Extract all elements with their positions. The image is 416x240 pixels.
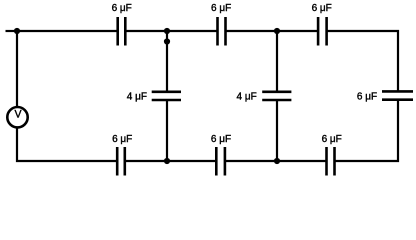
- svg-text:6 μF: 6 μF: [312, 3, 332, 14]
- junction dot node A top: [164, 28, 170, 34]
- voltage source V: [7, 107, 27, 127]
- wire left branch upper: [16, 31, 18, 107]
- capacitor C4 plates (middle, 4 uF): [152, 91, 181, 94]
- wire top rail segment 3: [226, 30, 319, 32]
- junction dot node B bottom: [274, 158, 280, 164]
- svg-text:4 μF: 4 μF: [127, 92, 147, 103]
- wire top rail segment 2: [126, 30, 218, 32]
- capacitor C9 plates (bottom row, 6 uF): [325, 147, 328, 176]
- wire top rail segment 4 + right branch upper: [327, 31, 399, 92]
- wire top rail segment 1: [17, 30, 117, 32]
- capacitor C7 plates (bottom row, 6 uF): [116, 147, 119, 176]
- svg-text:4 μF: 4 μF: [236, 92, 256, 103]
- junction dot top-left node: [14, 28, 20, 34]
- wire middle branch 1 lower: [166, 100, 168, 161]
- svg-text:6 μF: 6 μF: [112, 134, 132, 145]
- wire middle branch 2 upper: [276, 31, 278, 92]
- svg-text:V: V: [14, 109, 22, 121]
- capacitor C2 plates (top row, 6 uF): [216, 17, 219, 46]
- wire top-left stub: [6, 30, 18, 32]
- junction dot node A second: [164, 38, 170, 44]
- wire middle branch 2 lower: [276, 100, 278, 161]
- junction dot node A bottom: [164, 158, 170, 164]
- capacitor C8 plates (bottom row, 6 uF): [215, 147, 218, 176]
- wire bottom rail segment 1 + left branch lower corner: [17, 128, 117, 161]
- svg-text:6 μF: 6 μF: [112, 3, 132, 14]
- svg-text:6 μF: 6 μF: [357, 92, 377, 103]
- wire middle branch 1 upper: [166, 31, 168, 92]
- junction dot node B top: [274, 28, 280, 34]
- svg-text:6 μF: 6 μF: [211, 134, 231, 145]
- svg-text:6 μF: 6 μF: [322, 134, 342, 145]
- capacitor C6 plates (right, 6 uF): [382, 90, 413, 93]
- wire bottom rail segment 3: [225, 160, 327, 162]
- wire bottom rail segment 2: [125, 160, 217, 162]
- svg-text:6 μF: 6 μF: [211, 3, 231, 14]
- wire right branch lower + bottom rail segment 4: [335, 100, 399, 161]
- capacitor C1 plates (top row, 6 uF): [116, 17, 119, 46]
- capacitor C5 plates (middle, 4 uF): [262, 91, 291, 94]
- capacitor C3 plates (top row, 6 uF): [317, 17, 320, 46]
